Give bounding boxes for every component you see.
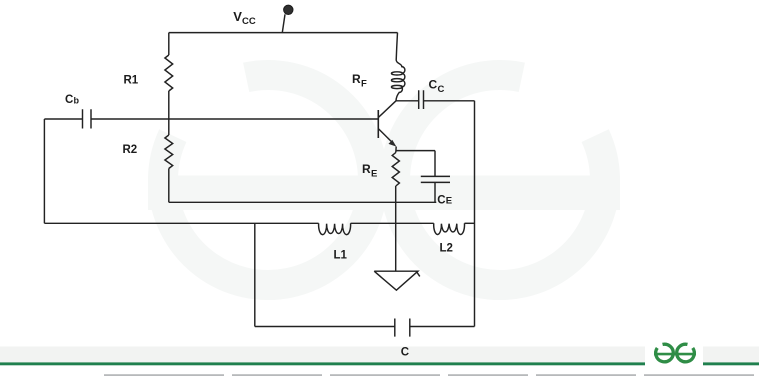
capacitor CE plates <box>421 176 450 182</box>
label RE <box>362 162 377 180</box>
svg-text:E: E <box>371 169 377 180</box>
RE/CE top wire <box>396 150 435 152</box>
ground symbol <box>374 271 420 290</box>
tank circuit top wire left <box>44 222 318 224</box>
Vcc stem wire <box>282 14 285 32</box>
Cc right wire <box>424 100 475 102</box>
left supply vertical wire to R1 <box>168 33 170 55</box>
RF choke top wire <box>396 33 397 60</box>
collector node wire to Cc <box>396 100 419 102</box>
svg-text:F: F <box>361 79 367 90</box>
RF choke coil loops <box>396 60 405 101</box>
watermark logo <box>163 75 605 285</box>
bottom wire left of C <box>255 326 395 328</box>
capacitor Cb left wire <box>44 118 82 120</box>
RF choke loop ellipse 1 <box>391 72 402 75</box>
RF choke loop ellipse 2 <box>391 79 402 82</box>
svg-text:C: C <box>65 94 73 106</box>
RE bottom wire to ground tap <box>395 186 397 271</box>
tank wire L2 to right rail <box>465 222 475 224</box>
Vcc terminal dot <box>284 5 293 14</box>
inductor L1 <box>319 223 351 234</box>
svg-text:L2: L2 <box>440 243 453 255</box>
svg-text:V: V <box>233 9 242 24</box>
svg-text:L1: L1 <box>334 250 348 262</box>
right feedback vertical wire <box>474 101 476 327</box>
svg-text:R: R <box>352 72 361 86</box>
capacitor C plates <box>395 319 410 337</box>
emitter arrowhead <box>389 140 397 147</box>
svg-text:b: b <box>74 96 80 106</box>
left loop vertical wire <box>43 119 45 223</box>
left tank vertical wire <box>254 223 256 326</box>
inductor L2 <box>434 223 465 234</box>
footer green rule right <box>703 362 759 365</box>
svg-text:R: R <box>362 162 371 176</box>
resistor RE <box>392 153 399 187</box>
CE bottom vertical wire <box>434 182 436 202</box>
tank wire between L1 and L2 <box>351 222 434 224</box>
RF choke loop ellipse 3 <box>391 85 402 88</box>
bias bottom wire <box>169 201 437 203</box>
label RF <box>352 72 367 90</box>
label Cc <box>429 78 445 96</box>
label Cb <box>65 94 80 106</box>
footer gray band <box>0 347 645 363</box>
CE top vertical wire <box>434 151 436 177</box>
svg-text:CC: CC <box>242 16 256 27</box>
footer GeeksforGeeks logo <box>654 344 696 362</box>
bottom wire right of C <box>410 326 475 328</box>
svg-text:C: C <box>438 84 445 95</box>
transistor Q1 base bar <box>377 110 379 138</box>
emitter to RE wire <box>395 147 397 153</box>
svg-text:E: E <box>446 195 452 206</box>
svg-text:R2: R2 <box>123 144 138 156</box>
svg-text:C: C <box>437 194 445 206</box>
label CE <box>437 194 452 206</box>
svg-text:C: C <box>429 78 438 92</box>
wire R1 to base node <box>168 91 170 135</box>
capacitor Cb plates <box>83 109 92 128</box>
bottom cropped text row <box>104 374 754 376</box>
wire R2 to bias bottom <box>168 169 170 203</box>
resistor R1 <box>165 55 173 91</box>
resistor R2 <box>165 135 173 169</box>
base wire <box>91 118 378 120</box>
label Vcc <box>233 9 256 27</box>
footer green rule left <box>0 362 645 365</box>
transistor collector lead <box>378 101 396 118</box>
capacitor Cc plates <box>419 90 424 109</box>
svg-text:C: C <box>401 347 409 359</box>
svg-text:R1: R1 <box>124 75 139 87</box>
transistor emitter lead <box>378 129 392 143</box>
top supply wire <box>169 32 398 34</box>
